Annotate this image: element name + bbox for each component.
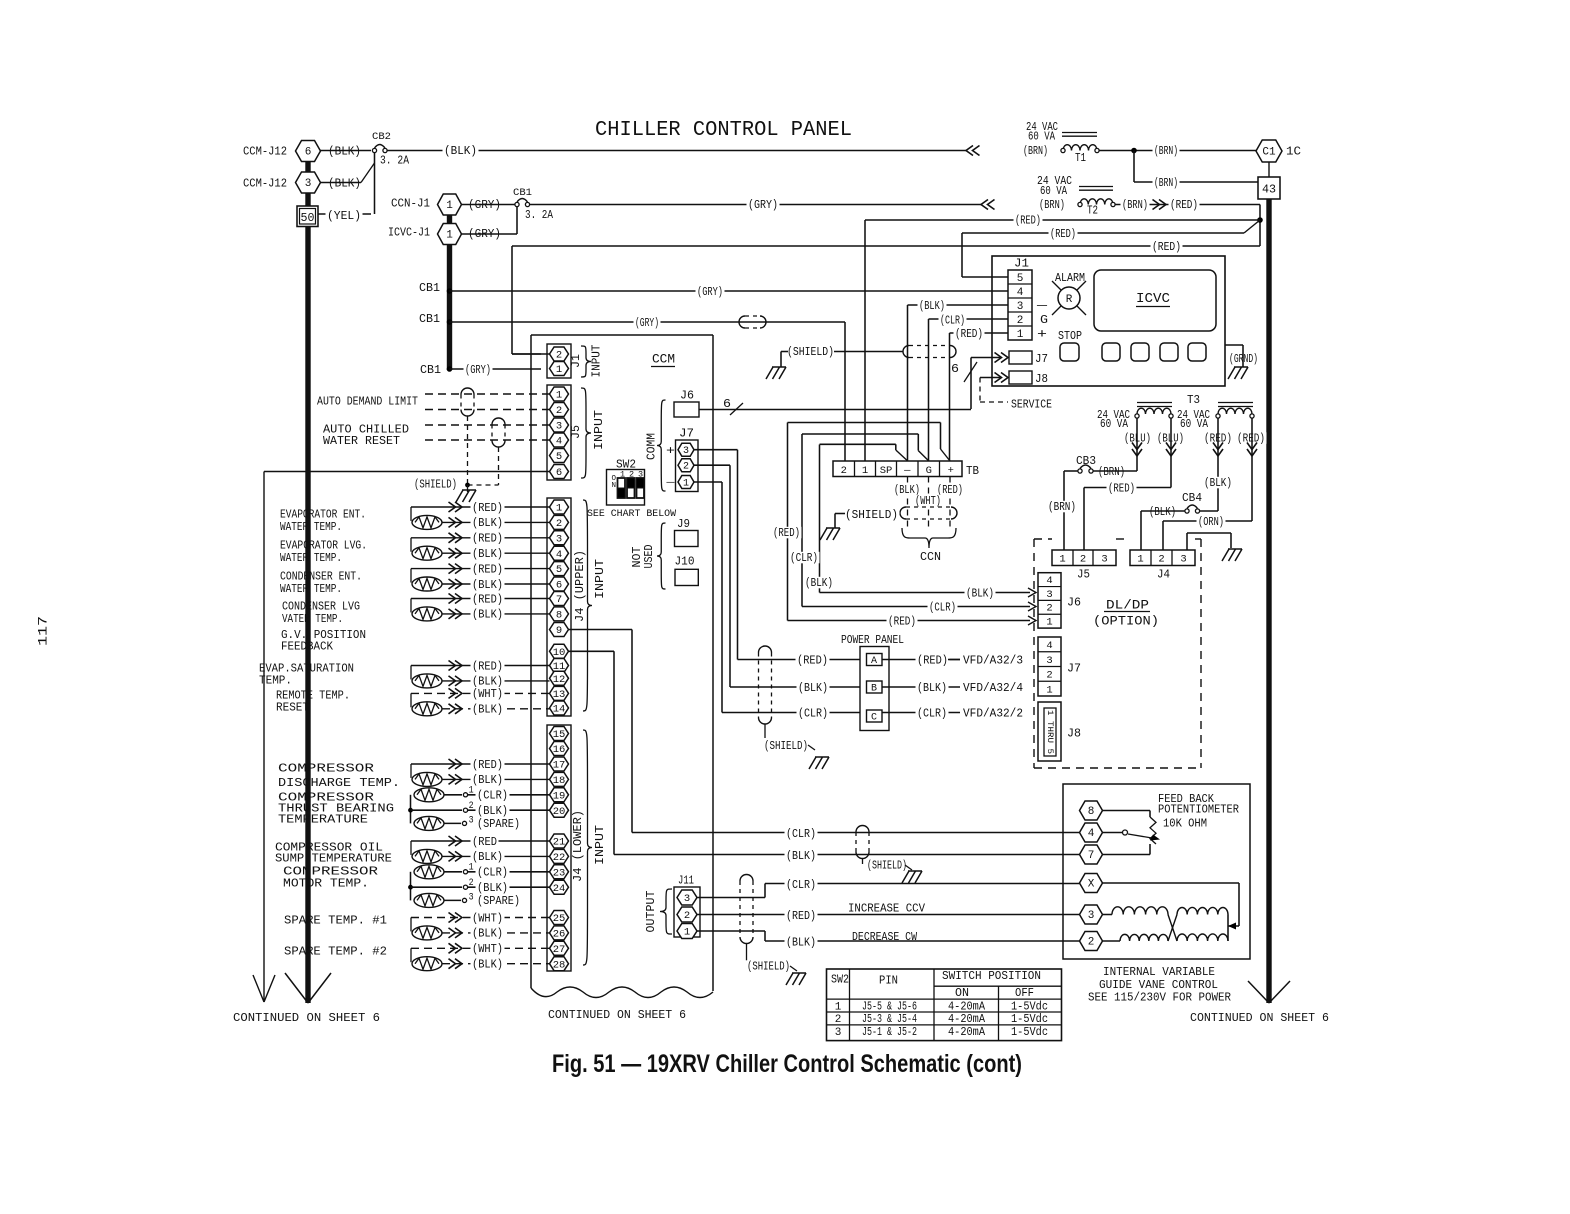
svg-text:INPUT: INPUT bbox=[591, 344, 604, 377]
svg-text:(GRY): (GRY) bbox=[748, 199, 778, 212]
svg-text:+: + bbox=[1037, 327, 1047, 342]
svg-text:J7: J7 bbox=[1067, 663, 1081, 676]
svg-text:2: 2 bbox=[683, 462, 689, 473]
svg-text:(RED): (RED) bbox=[472, 593, 503, 606]
svg-text:3: 3 bbox=[684, 893, 690, 905]
svg-text:6: 6 bbox=[556, 467, 562, 479]
svg-text:(RED): (RED) bbox=[917, 654, 948, 667]
svg-text:J4 (LOWER): J4 (LOWER) bbox=[572, 810, 585, 882]
svg-text:3: 3 bbox=[1046, 655, 1052, 667]
svg-text:(BRN): (BRN) bbox=[1048, 501, 1076, 514]
svg-text:ON: ON bbox=[955, 987, 969, 1000]
svg-text:(BRN): (BRN) bbox=[1098, 466, 1125, 479]
svg-text:25: 25 bbox=[553, 913, 566, 925]
svg-text:15: 15 bbox=[553, 729, 566, 741]
svg-text:(SPARE): (SPARE) bbox=[477, 895, 520, 908]
svg-text:T2: T2 bbox=[1087, 205, 1098, 218]
svg-text:(WHT): (WHT) bbox=[915, 495, 941, 508]
svg-text:N: N bbox=[612, 482, 617, 490]
svg-text:CB3: CB3 bbox=[1076, 455, 1096, 468]
svg-text:(CLR): (CLR) bbox=[798, 707, 828, 720]
svg-text:1: 1 bbox=[556, 364, 562, 376]
svg-text:10K OHM: 10K OHM bbox=[1163, 818, 1207, 831]
svg-text:(GRY): (GRY) bbox=[468, 199, 501, 212]
svg-text:60 VA: 60 VA bbox=[1100, 418, 1128, 431]
svg-text:J5: J5 bbox=[570, 425, 583, 439]
svg-text:(GRY): (GRY) bbox=[635, 317, 659, 330]
svg-text:COMM: COMM bbox=[646, 433, 659, 460]
svg-text:5: 5 bbox=[1017, 273, 1024, 285]
svg-text:23: 23 bbox=[553, 867, 566, 879]
svg-text:(RED): (RED) bbox=[888, 616, 916, 629]
svg-text:(SHIELD): (SHIELD) bbox=[764, 740, 808, 753]
svg-text:(RED): (RED) bbox=[472, 533, 503, 546]
svg-text:CONDENSER LVG: CONDENSER LVG bbox=[282, 601, 360, 614]
svg-text:SWITCH POSITION: SWITCH POSITION bbox=[942, 970, 1041, 983]
svg-text:1: 1 bbox=[1137, 554, 1143, 566]
svg-text:(BLK): (BLK) bbox=[786, 936, 816, 949]
svg-text:G: G bbox=[1040, 314, 1048, 327]
svg-text:WATER RESET: WATER RESET bbox=[323, 435, 400, 448]
svg-text:(YEL): (YEL) bbox=[327, 210, 361, 223]
svg-text:20: 20 bbox=[553, 806, 566, 818]
svg-text:J11: J11 bbox=[678, 875, 694, 888]
svg-text:J7: J7 bbox=[1035, 353, 1048, 366]
svg-text:CB1: CB1 bbox=[513, 187, 532, 199]
svg-text:1: 1 bbox=[469, 863, 474, 874]
svg-text:1: 1 bbox=[1017, 329, 1024, 341]
svg-text:6: 6 bbox=[723, 397, 731, 411]
svg-text:OUTPUT: OUTPUT bbox=[645, 890, 658, 932]
svg-text:SEE 115/230V FOR POWER: SEE 115/230V FOR POWER bbox=[1088, 992, 1231, 1005]
svg-text:4: 4 bbox=[1046, 640, 1052, 652]
svg-text:POWER PANEL: POWER PANEL bbox=[841, 634, 904, 647]
svg-text:(CLR): (CLR) bbox=[940, 315, 965, 328]
svg-text:21: 21 bbox=[553, 837, 566, 849]
svg-text:INCREASE CCV: INCREASE CCV bbox=[848, 903, 925, 916]
svg-text:CB1: CB1 bbox=[419, 313, 440, 326]
svg-text:18: 18 bbox=[553, 775, 566, 787]
svg-text:C1: C1 bbox=[1262, 147, 1276, 159]
svg-text:27: 27 bbox=[553, 944, 566, 956]
svg-text:J6: J6 bbox=[680, 390, 694, 403]
svg-text:R: R bbox=[1066, 294, 1073, 306]
svg-text:19: 19 bbox=[553, 790, 566, 802]
svg-text:CONDENSER ENT.: CONDENSER ENT. bbox=[280, 571, 362, 584]
svg-text:CB2: CB2 bbox=[372, 131, 391, 143]
svg-text:2: 2 bbox=[469, 801, 474, 812]
svg-text:(SHIELD): (SHIELD) bbox=[867, 860, 907, 873]
svg-text:CONTINUED ON SHEET 6: CONTINUED ON SHEET 6 bbox=[548, 1009, 686, 1022]
svg-text:J1: J1 bbox=[570, 354, 583, 368]
svg-text:(RED): (RED) bbox=[955, 328, 983, 341]
svg-text:TEMPERATURE: TEMPERATURE bbox=[278, 814, 368, 827]
svg-text:(BLK): (BLK) bbox=[472, 548, 503, 561]
svg-text:WATER TEMP.: WATER TEMP. bbox=[280, 521, 342, 534]
svg-text:J10: J10 bbox=[675, 556, 695, 569]
svg-text:1: 1 bbox=[1046, 617, 1052, 629]
svg-text:SPARE TEMP. #2: SPARE TEMP. #2 bbox=[284, 946, 387, 959]
svg-text:2: 2 bbox=[1046, 670, 1052, 682]
svg-text:POTENTIOMETER: POTENTIOMETER bbox=[1158, 804, 1239, 817]
svg-text:J5-5 & J5-6: J5-5 & J5-6 bbox=[862, 1000, 917, 1013]
svg-text:VFD/A32/4: VFD/A32/4 bbox=[963, 682, 1023, 695]
svg-text:J6: J6 bbox=[1067, 597, 1081, 610]
svg-text:J7: J7 bbox=[679, 428, 694, 441]
svg-text:ICVC-J1: ICVC-J1 bbox=[388, 227, 430, 240]
svg-text:J4: J4 bbox=[1157, 569, 1170, 582]
svg-text:DISCHARGE TEMP.: DISCHARGE TEMP. bbox=[278, 777, 400, 790]
svg-text:(BLK): (BLK) bbox=[1149, 506, 1176, 519]
svg-text:3: 3 bbox=[835, 1027, 842, 1039]
svg-text:STOP: STOP bbox=[1058, 330, 1082, 343]
svg-text:(BLK): (BLK) bbox=[472, 517, 503, 530]
svg-text:1: 1 bbox=[446, 230, 453, 242]
svg-text:3. 2A: 3. 2A bbox=[380, 154, 409, 167]
svg-text:J1: J1 bbox=[1014, 258, 1029, 271]
svg-text:3: 3 bbox=[1046, 589, 1052, 601]
svg-text:(SHIELD): (SHIELD) bbox=[787, 346, 834, 359]
svg-text:(GRY): (GRY) bbox=[697, 286, 723, 299]
svg-text:(BLK): (BLK) bbox=[919, 300, 945, 313]
svg-text:(RED): (RED) bbox=[1108, 483, 1135, 496]
svg-text:(BRN): (BRN) bbox=[1039, 199, 1065, 212]
svg-text:(BLK): (BLK) bbox=[472, 774, 503, 787]
svg-text:(BLK): (BLK) bbox=[786, 850, 816, 863]
svg-text:(RED): (RED) bbox=[472, 502, 503, 515]
svg-text:(BLK): (BLK) bbox=[328, 178, 361, 191]
svg-text:MOTOR TEMP.: MOTOR TEMP. bbox=[283, 878, 369, 891]
svg-text:22: 22 bbox=[553, 852, 566, 864]
svg-text:WATER TEMP.: WATER TEMP. bbox=[280, 583, 342, 596]
svg-text:J8: J8 bbox=[1035, 373, 1048, 386]
svg-text:2: 2 bbox=[556, 518, 562, 530]
svg-text:USED: USED bbox=[643, 544, 656, 568]
svg-text:INTERNAL VARIABLE: INTERNAL VARIABLE bbox=[1103, 966, 1215, 979]
svg-text:J8: J8 bbox=[1067, 728, 1081, 741]
svg-text:(CLR): (CLR) bbox=[786, 828, 816, 841]
svg-text:(RED): (RED) bbox=[1170, 199, 1198, 212]
svg-text:C: C bbox=[871, 713, 877, 724]
svg-text:9: 9 bbox=[556, 625, 562, 637]
svg-text:117: 117 bbox=[35, 616, 50, 646]
svg-text:2: 2 bbox=[835, 1014, 842, 1026]
svg-text:(WHT): (WHT) bbox=[472, 912, 503, 925]
svg-text:4-20mA: 4-20mA bbox=[948, 1000, 985, 1013]
svg-text:2: 2 bbox=[556, 405, 562, 417]
svg-text:DL/DP: DL/DP bbox=[1106, 598, 1149, 613]
svg-text:12: 12 bbox=[553, 674, 566, 686]
svg-text:INPUT: INPUT bbox=[593, 410, 606, 450]
svg-text:(BLK): (BLK) bbox=[472, 579, 503, 592]
svg-text:B: B bbox=[871, 684, 877, 695]
svg-text:8: 8 bbox=[556, 609, 562, 621]
svg-text:J5-1 & J5-2: J5-1 & J5-2 bbox=[862, 1026, 917, 1039]
svg-text:16: 16 bbox=[553, 744, 566, 756]
svg-text:RESET: RESET bbox=[276, 702, 309, 715]
svg-text:(SHIELD): (SHIELD) bbox=[414, 479, 457, 492]
svg-text:(CLR): (CLR) bbox=[786, 879, 816, 892]
svg-text:CCM-J12: CCM-J12 bbox=[243, 146, 287, 159]
svg-text:SP: SP bbox=[880, 465, 893, 477]
svg-text:(RED): (RED) bbox=[472, 660, 503, 673]
svg-text:3: 3 bbox=[305, 178, 312, 190]
svg-text:SPARE TEMP. #1: SPARE TEMP. #1 bbox=[284, 915, 387, 928]
svg-text:2: 2 bbox=[1017, 315, 1024, 327]
svg-text:1: 1 bbox=[446, 200, 453, 212]
svg-text:ICVC: ICVC bbox=[1136, 291, 1170, 307]
svg-text:1: 1 bbox=[556, 503, 562, 515]
svg-text:1: 1 bbox=[835, 1001, 842, 1013]
svg-text:CONTINUED ON SHEET 6: CONTINUED ON SHEET 6 bbox=[1190, 1012, 1329, 1025]
svg-text:(BLK): (BLK) bbox=[472, 851, 503, 864]
svg-text:WATER TEMP.: WATER TEMP. bbox=[280, 552, 342, 565]
svg-text:3: 3 bbox=[1088, 910, 1095, 922]
svg-text:4: 4 bbox=[1088, 828, 1095, 840]
svg-text:1: 1 bbox=[1046, 684, 1052, 696]
svg-text:(RED): (RED) bbox=[773, 527, 800, 540]
svg-text:(BLK): (BLK) bbox=[472, 676, 503, 689]
svg-text:COMPRESSOR: COMPRESSOR bbox=[278, 763, 374, 776]
svg-text:CCN-J1: CCN-J1 bbox=[391, 198, 430, 211]
svg-text:4-20mA: 4-20mA bbox=[948, 1013, 985, 1026]
svg-text:(BLK): (BLK) bbox=[328, 146, 361, 159]
svg-text:SERVICE: SERVICE bbox=[1011, 399, 1052, 412]
svg-text:(BLK): (BLK) bbox=[472, 704, 503, 717]
svg-text:CB1: CB1 bbox=[420, 364, 441, 377]
svg-text:Fig. 51 — 19XRV Chiller Contro: Fig. 51 — 19XRV Chiller Control Schemati… bbox=[552, 1050, 1022, 1078]
svg-text:EVAPORATOR ENT.: EVAPORATOR ENT. bbox=[280, 509, 366, 522]
svg-text:3: 3 bbox=[556, 421, 562, 433]
svg-text:(CLR): (CLR) bbox=[917, 707, 947, 720]
svg-text:(ORN): (ORN) bbox=[1198, 516, 1224, 529]
svg-text:FEEDBACK: FEEDBACK bbox=[281, 641, 333, 654]
svg-text:VFD/A32/2: VFD/A32/2 bbox=[963, 707, 1023, 720]
svg-text:—: — bbox=[1036, 300, 1048, 313]
svg-text:4: 4 bbox=[1017, 287, 1024, 299]
svg-text:2: 2 bbox=[1080, 554, 1086, 566]
svg-text:(RED): (RED) bbox=[1050, 228, 1076, 241]
svg-text:60 VA: 60 VA bbox=[1040, 185, 1067, 198]
svg-text:(OPTION): (OPTION) bbox=[1093, 614, 1159, 629]
svg-text:(SHIELD): (SHIELD) bbox=[747, 961, 790, 974]
svg-text:5: 5 bbox=[556, 564, 562, 576]
svg-text:INPUT: INPUT bbox=[594, 559, 607, 599]
svg-text:+: + bbox=[948, 465, 954, 477]
svg-text:CCM-J12: CCM-J12 bbox=[243, 178, 287, 191]
svg-text:A: A bbox=[871, 656, 877, 667]
svg-text:(RED): (RED) bbox=[797, 654, 828, 667]
svg-text:3: 3 bbox=[1180, 554, 1186, 566]
svg-text:2: 2 bbox=[469, 878, 474, 889]
svg-text:CCN: CCN bbox=[920, 550, 941, 564]
svg-text:1-5Vdc: 1-5Vdc bbox=[1011, 1000, 1048, 1013]
svg-text:7: 7 bbox=[1088, 850, 1095, 862]
svg-text:13: 13 bbox=[553, 689, 566, 701]
svg-text:2: 2 bbox=[1088, 937, 1095, 949]
svg-text:INPUT: INPUT bbox=[594, 825, 607, 865]
svg-text:SEE CHART BELOW: SEE CHART BELOW bbox=[587, 508, 677, 520]
svg-text:1-5Vdc: 1-5Vdc bbox=[1011, 1026, 1048, 1039]
svg-text:3: 3 bbox=[556, 533, 562, 545]
svg-text:(WHT): (WHT) bbox=[472, 943, 503, 956]
svg-text:2: 2 bbox=[556, 350, 562, 362]
svg-text:3: 3 bbox=[469, 815, 474, 826]
svg-text:4-20mA: 4-20mA bbox=[948, 1026, 985, 1039]
svg-text:CCM: CCM bbox=[652, 352, 675, 367]
svg-text:CB1: CB1 bbox=[419, 282, 440, 295]
svg-text:(BLK): (BLK) bbox=[966, 588, 994, 601]
svg-text:GUIDE VANE CONTROL: GUIDE VANE CONTROL bbox=[1099, 979, 1218, 992]
svg-text:(BLK): (BLK) bbox=[917, 682, 947, 695]
svg-text:(RED: (RED bbox=[472, 836, 497, 849]
svg-text:28: 28 bbox=[553, 959, 566, 971]
svg-text:60 VA: 60 VA bbox=[1180, 418, 1208, 431]
svg-text:VATER TEMP.: VATER TEMP. bbox=[282, 613, 343, 626]
svg-text:EVAPORATOR LVG.: EVAPORATOR LVG. bbox=[280, 540, 367, 553]
svg-text:J5: J5 bbox=[1077, 569, 1090, 582]
svg-text:4: 4 bbox=[1046, 575, 1052, 587]
svg-text:(GRY): (GRY) bbox=[465, 364, 491, 377]
svg-text:8: 8 bbox=[1088, 806, 1095, 818]
svg-text:43: 43 bbox=[1262, 184, 1276, 197]
svg-text:(BRN): (BRN) bbox=[1154, 177, 1178, 190]
svg-text:2: 2 bbox=[684, 910, 690, 922]
svg-text:DECREASE CW: DECREASE CW bbox=[852, 931, 917, 944]
svg-text:—: — bbox=[903, 465, 911, 477]
svg-text:14: 14 bbox=[553, 704, 566, 716]
svg-text:(BLK): (BLK) bbox=[472, 609, 503, 622]
svg-text:2: 2 bbox=[841, 465, 847, 477]
svg-text:VFD/A32/3: VFD/A32/3 bbox=[963, 654, 1023, 667]
svg-text:17: 17 bbox=[553, 760, 566, 772]
svg-text:1: 1 bbox=[556, 390, 562, 402]
svg-text:5: 5 bbox=[556, 451, 562, 463]
svg-text:(CLR): (CLR) bbox=[477, 790, 508, 803]
svg-text:T1: T1 bbox=[1075, 152, 1086, 165]
svg-text:26: 26 bbox=[553, 928, 566, 940]
svg-text:(BLK): (BLK) bbox=[798, 682, 828, 695]
svg-text:6: 6 bbox=[556, 580, 562, 592]
svg-text:ALARM: ALARM bbox=[1055, 272, 1085, 285]
svg-text:T3: T3 bbox=[1187, 394, 1200, 407]
svg-text:(BRN): (BRN) bbox=[1154, 145, 1178, 158]
svg-text:OFF: OFF bbox=[1015, 987, 1034, 1000]
svg-text:(RED): (RED) bbox=[1152, 241, 1181, 254]
svg-text:SUMP TEMPERATURE: SUMP TEMPERATURE bbox=[275, 853, 392, 866]
svg-text:(RED): (RED) bbox=[472, 563, 503, 576]
svg-text:PIN: PIN bbox=[879, 975, 898, 988]
svg-text:50: 50 bbox=[301, 212, 315, 225]
svg-text:G: G bbox=[926, 465, 932, 477]
svg-text:1: 1 bbox=[469, 786, 474, 797]
svg-text:J5-3 & J5-4: J5-3 & J5-4 bbox=[862, 1013, 917, 1026]
svg-text:4: 4 bbox=[556, 436, 562, 448]
svg-text:6: 6 bbox=[951, 362, 959, 376]
svg-text:TEMP.: TEMP. bbox=[259, 675, 292, 688]
svg-text:CONTINUED ON SHEET 6: CONTINUED ON SHEET 6 bbox=[233, 1012, 380, 1025]
svg-text:(BRN): (BRN) bbox=[1122, 199, 1148, 212]
svg-text:X: X bbox=[1088, 879, 1095, 891]
svg-text:CB4: CB4 bbox=[1182, 492, 1202, 505]
svg-text:3. 2A: 3. 2A bbox=[525, 209, 553, 222]
svg-text:1: 1 bbox=[1059, 554, 1065, 566]
svg-text:1: 1 bbox=[684, 927, 690, 939]
svg-text:J4 (UPPER): J4 (UPPER) bbox=[574, 550, 587, 622]
svg-text:2: 2 bbox=[1046, 603, 1052, 615]
svg-text:(RED): (RED) bbox=[1237, 433, 1265, 446]
svg-text:CHILLER CONTROL PANEL: CHILLER CONTROL PANEL bbox=[595, 118, 852, 142]
svg-text:(CLR): (CLR) bbox=[790, 552, 818, 565]
svg-text:24: 24 bbox=[553, 883, 566, 895]
svg-text:(RED): (RED) bbox=[1015, 215, 1041, 228]
svg-text:4: 4 bbox=[556, 549, 562, 561]
svg-text:3: 3 bbox=[469, 892, 474, 903]
svg-text:SW2: SW2 bbox=[831, 974, 849, 987]
svg-text:1C: 1C bbox=[1286, 146, 1301, 159]
svg-text:(RED): (RED) bbox=[472, 759, 503, 772]
svg-text:(SHIELD): (SHIELD) bbox=[845, 509, 898, 522]
svg-text:1-5Vdc: 1-5Vdc bbox=[1011, 1013, 1048, 1026]
svg-text:(CLR): (CLR) bbox=[477, 867, 508, 880]
svg-text:J9: J9 bbox=[677, 518, 690, 531]
svg-text:+: + bbox=[666, 444, 675, 458]
svg-text:(BLK): (BLK) bbox=[805, 577, 833, 590]
svg-text:—: — bbox=[665, 478, 676, 489]
svg-text:AUTO DEMAND LIMIT: AUTO DEMAND LIMIT bbox=[317, 396, 418, 409]
svg-text:(BRN): (BRN) bbox=[1023, 145, 1048, 158]
svg-text:(BLK): (BLK) bbox=[444, 145, 477, 158]
svg-text:3: 3 bbox=[683, 446, 689, 457]
svg-text:(BLK): (BLK) bbox=[1204, 477, 1232, 490]
svg-text:1: 1 bbox=[862, 465, 868, 477]
svg-text:(WHT): (WHT) bbox=[472, 688, 503, 701]
svg-text:2: 2 bbox=[1158, 554, 1164, 566]
svg-text:(BLK): (BLK) bbox=[477, 882, 508, 895]
svg-text:3: 3 bbox=[1101, 554, 1107, 566]
svg-text:10: 10 bbox=[553, 647, 566, 659]
svg-text:(BLK): (BLK) bbox=[472, 928, 503, 941]
svg-text:3: 3 bbox=[1017, 301, 1024, 313]
svg-text:(BLK): (BLK) bbox=[477, 805, 508, 818]
svg-text:1 THRU 5: 1 THRU 5 bbox=[1045, 710, 1055, 754]
svg-text:(SPARE): (SPARE) bbox=[477, 818, 520, 831]
svg-text:(CLR): (CLR) bbox=[929, 602, 956, 615]
svg-text:6: 6 bbox=[305, 147, 312, 159]
svg-text:TB: TB bbox=[966, 465, 979, 478]
svg-text:(BLK): (BLK) bbox=[472, 959, 503, 972]
svg-text:(RED): (RED) bbox=[786, 910, 816, 923]
svg-text:7: 7 bbox=[556, 594, 562, 606]
svg-text:60 VA: 60 VA bbox=[1028, 131, 1055, 144]
svg-text:1: 1 bbox=[683, 478, 689, 489]
